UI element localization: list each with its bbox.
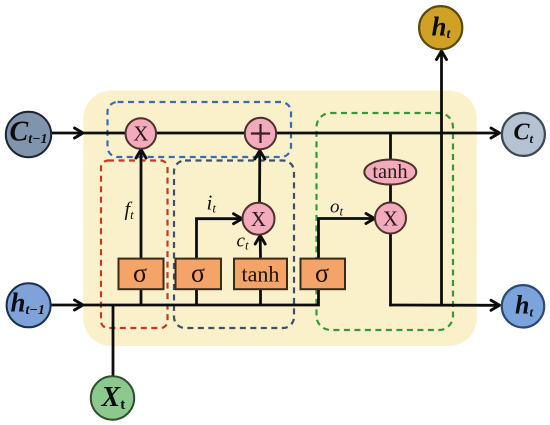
wire sigma1 drop to h line (140, 289, 143, 306)
label o_t (330, 197, 344, 219)
svg-text:X: X (133, 122, 148, 146)
wire X_t drop (112, 305, 115, 377)
svg-text:σ: σ (191, 259, 205, 288)
tanh ellipse node (364, 160, 416, 185)
wire tanh-box drop to h line (259, 289, 262, 306)
svg-text:X: X (383, 206, 398, 230)
wire h output line to h_t (389, 300, 499, 310)
wire tanh branch down from cell-state line (389, 133, 392, 160)
wire o_t: sigma3 up and right into output multiply (319, 214, 375, 259)
wire tanh ellipse to output multiply (389, 184, 392, 204)
wire h_{t-1} to cell (51, 300, 84, 310)
svg-text:X: X (251, 207, 266, 231)
svg-text:tanh: tanh (372, 161, 407, 183)
wire h_{t-1} line inside cell turning up into sigma3 (84, 288, 319, 305)
sigma box 1 (forget gate sigma) (119, 259, 164, 290)
tanh box (candidate) (234, 259, 287, 290)
wire C_{t-1} to cell (51, 128, 83, 138)
label f_t (125, 199, 135, 223)
svg-text:tanh: tanh (242, 262, 280, 287)
wire f_t: sigma1 up into forget multiply (136, 150, 146, 259)
green dashed box (output gate group) (317, 113, 454, 330)
navy dashed box (input gate group) (174, 161, 294, 329)
wire output multiply down to h output line (389, 233, 392, 306)
wire c_t: tanh box up into input multiply (255, 236, 265, 259)
svg-text:σ: σ (315, 259, 329, 288)
forget multiply node (126, 118, 157, 149)
label i_t (207, 191, 217, 216)
wire main cell-state line (84, 128, 500, 138)
input multiply node (243, 203, 275, 235)
node X_t input circle (91, 376, 134, 419)
sigma box 3 (output gate sigma) (301, 259, 346, 290)
svg-text:σ: σ (133, 259, 147, 288)
output multiply node (375, 203, 406, 234)
sigma box 2 (input gate sigma) (176, 259, 222, 290)
wire sigma2 drop to h line (195, 289, 198, 306)
plus node (cell state add) (245, 118, 276, 149)
node h_t top output circle (419, 6, 462, 49)
red dashed box (forget gate group) (101, 161, 168, 329)
cell body (cream rounded rectangle) (83, 91, 477, 347)
wire input multiply up into plus (255, 151, 265, 203)
wire h_t branch up to top (437, 51, 447, 305)
blue dashed box (cell-state line group) (108, 102, 292, 157)
node h_t right output circle (502, 285, 544, 327)
node C_t output circle (502, 113, 545, 156)
node h_{t-1} input circle (7, 283, 51, 327)
node C_{t-1} input circle (6, 112, 51, 157)
wire i_t: sigma2 up and right into input multiply (197, 214, 243, 259)
label c_t (237, 231, 249, 253)
